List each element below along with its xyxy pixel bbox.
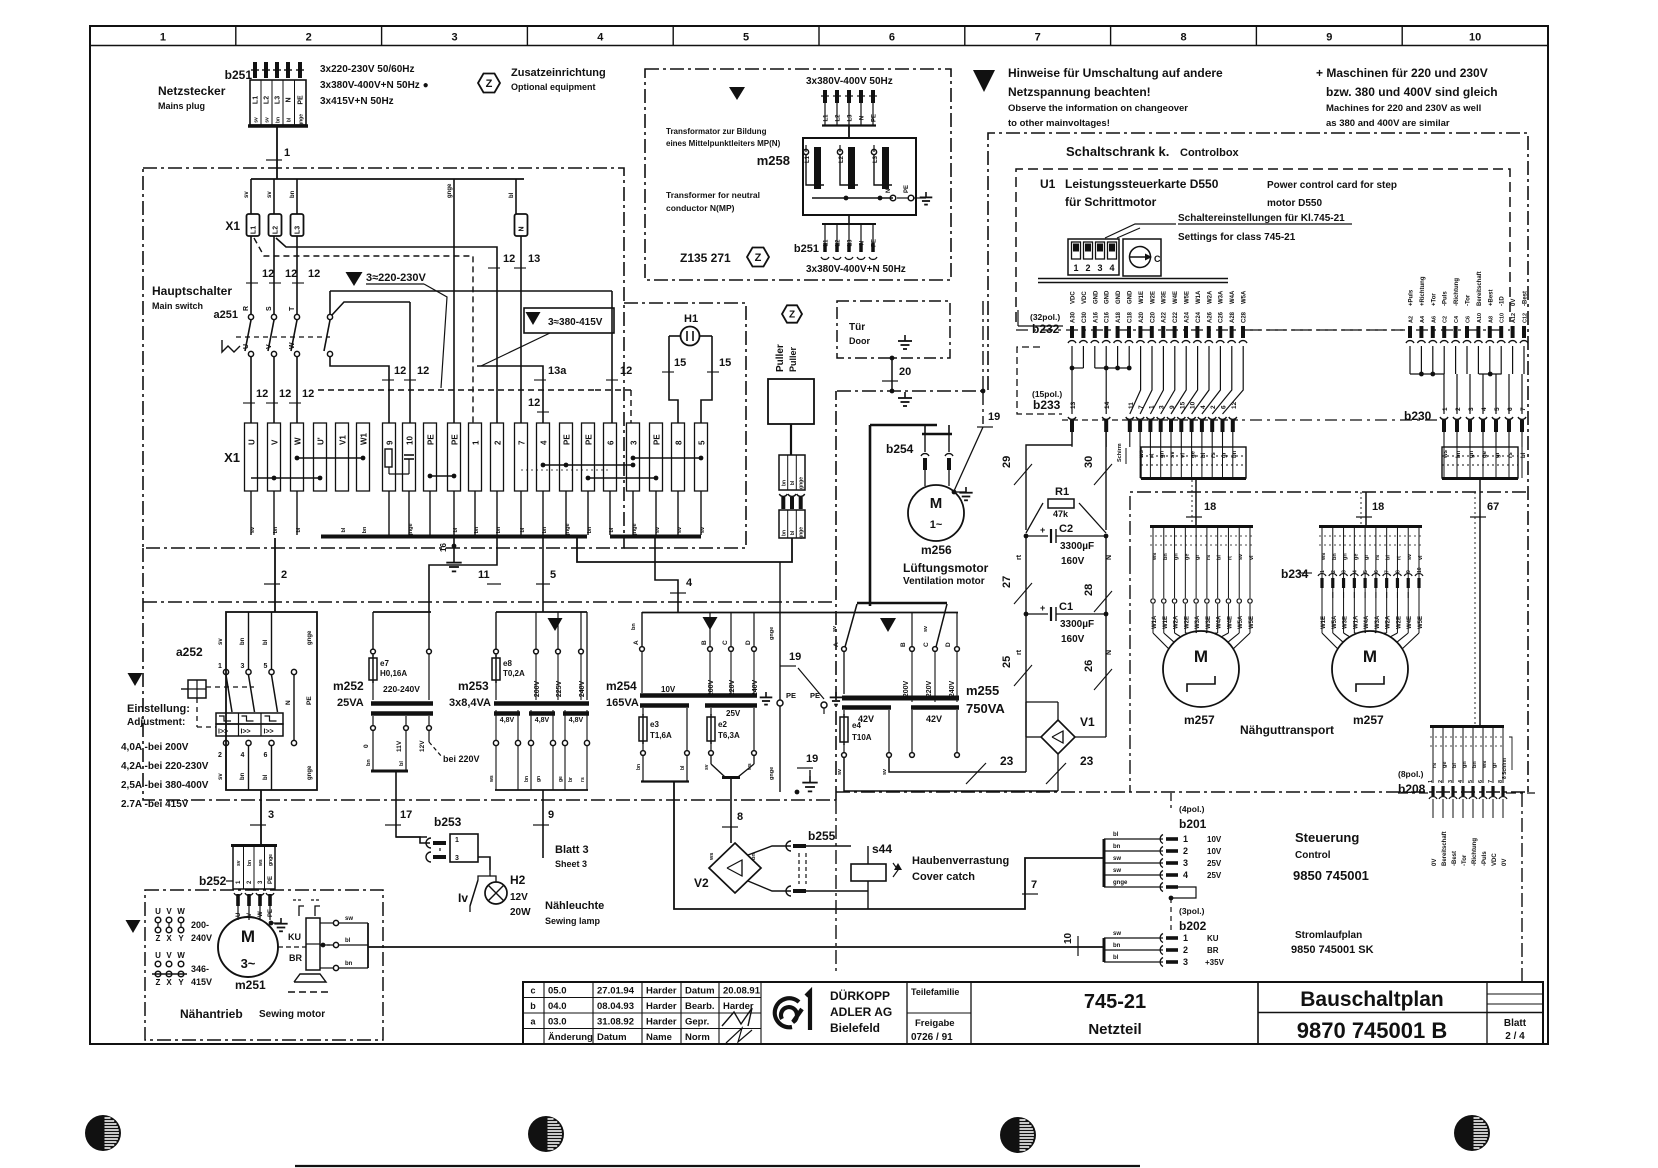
svg-text:V: V xyxy=(271,439,280,445)
svg-text:11: 11 xyxy=(478,569,490,581)
svg-text:8 Schirm: 8 Schirm xyxy=(1502,757,1508,779)
svg-text:Mains plug: Mains plug xyxy=(158,101,205,111)
svg-text:eines Mittelpunktleiters MP(N): eines Mittelpunktleiters MP(N) xyxy=(666,139,781,148)
svg-text:1: 1 xyxy=(1320,570,1326,573)
wire tag 11 xyxy=(478,569,501,584)
svg-text:12: 12 xyxy=(620,365,632,377)
svg-text:Änderung: Änderung xyxy=(548,1032,593,1043)
wire 29 drop xyxy=(1026,432,1072,530)
svg-text:20.08.91: 20.08.91 xyxy=(723,986,761,997)
X1 cell tails xyxy=(251,491,701,535)
svg-text:9: 9 xyxy=(1326,32,1332,44)
svg-text:12: 12 xyxy=(417,365,429,377)
wire tag 18 left xyxy=(1186,501,1216,517)
svg-text:gnge: gnge xyxy=(769,627,775,640)
symbol Z optional equipment xyxy=(478,74,500,93)
svg-text:27: 27 xyxy=(1001,576,1013,588)
svg-text:bl: bl xyxy=(263,774,269,780)
svg-text:A4: A4 xyxy=(1420,315,1426,323)
svg-text:W5E: W5E xyxy=(1185,291,1191,304)
wire 67 down xyxy=(1475,480,1480,725)
wire tag 20 xyxy=(882,366,911,381)
wire pole4 bottom to X1.9 xyxy=(330,357,389,423)
enclosure U1 card xyxy=(1016,169,1510,322)
wire gnge drop xyxy=(453,179,455,423)
svg-text:PE: PE xyxy=(563,434,572,445)
svg-text:15: 15 xyxy=(674,357,686,369)
svg-text:PE: PE xyxy=(306,696,313,705)
switch a251 actuator xyxy=(222,340,240,352)
V2 wire labels xyxy=(709,853,757,861)
svg-text:9850 745001 SK: 9850 745001 SK xyxy=(1291,944,1374,956)
svg-text:L2: L2 xyxy=(264,96,271,104)
m251 voltage grid 200-240V xyxy=(155,907,212,943)
svg-text:10V: 10V xyxy=(1207,847,1222,856)
marker triangle m253 xyxy=(548,618,563,631)
svg-text:Controlbox: Controlbox xyxy=(1180,147,1240,159)
svg-text:sv: sv xyxy=(837,768,843,775)
svg-text:bn: bn xyxy=(781,530,787,536)
svg-text:e8: e8 xyxy=(503,659,512,668)
svg-text:23: 23 xyxy=(1000,754,1014,768)
b252 lower labels xyxy=(236,909,274,917)
svg-text:Bereitschaft: Bereitschaft xyxy=(1477,271,1483,306)
label C1 xyxy=(1059,601,1094,645)
wire s44 down xyxy=(867,881,869,909)
svg-text:19: 19 xyxy=(806,753,818,765)
wire bus 290 to right xyxy=(330,290,612,292)
wire tag 12 near N xyxy=(488,253,515,268)
svg-text:PE: PE xyxy=(427,434,436,445)
svg-text:47k: 47k xyxy=(1053,509,1069,519)
svg-text:3≈220-230V: 3≈220-230V xyxy=(366,272,427,284)
wire to b202 xyxy=(368,946,1104,948)
wire 380-415V feed xyxy=(611,291,613,423)
svg-text:7: 7 xyxy=(1488,780,1494,783)
svg-text:ws: ws xyxy=(1152,553,1158,561)
svg-text:Zusatzeinrichtung: Zusatzeinrichtung xyxy=(511,67,606,79)
svg-text:(8pol.): (8pol.) xyxy=(1398,769,1424,779)
svg-text:28: 28 xyxy=(1083,584,1095,596)
svg-text:Puller: Puller xyxy=(788,346,798,372)
wire tag 7 xyxy=(1022,879,1038,894)
ruler column numbers 1-10 xyxy=(160,32,1481,44)
wires to b230 xyxy=(1444,374,1522,414)
m254 primary pins A B C D xyxy=(631,612,756,693)
svg-text:W4A: W4A xyxy=(1230,290,1236,304)
svg-text:7: 7 xyxy=(1385,570,1391,573)
svg-text:m252: m252 xyxy=(333,679,364,693)
fuse e4 xyxy=(840,710,872,745)
wire m254 10V output xyxy=(674,782,1103,909)
svg-text:conductor N(MP): conductor N(MP) xyxy=(666,203,735,213)
svg-text:PE: PE xyxy=(268,876,274,884)
b233 tails xyxy=(1072,432,1233,447)
label m252 xyxy=(333,679,364,709)
svg-text:165VA: 165VA xyxy=(606,697,639,709)
svg-text:PE: PE xyxy=(786,691,796,700)
svg-text:sv: sv xyxy=(218,638,224,645)
m258 output wire xyxy=(848,215,850,224)
b201 pin5 loop xyxy=(1169,887,1196,930)
svg-text:W2A: W2A xyxy=(1207,290,1213,304)
svg-text:M: M xyxy=(1194,647,1208,666)
svg-text:225V: 225V xyxy=(556,681,563,698)
svg-text:b202: b202 xyxy=(1179,919,1207,933)
svg-text:23: 23 xyxy=(1080,754,1094,768)
svg-text:W: W xyxy=(294,437,303,445)
b254 pins xyxy=(921,454,953,486)
svg-text:X: X xyxy=(166,978,172,987)
signature scribble xyxy=(722,1008,752,1043)
svg-text:14: 14 xyxy=(1104,401,1111,409)
wire dashed option lower xyxy=(318,389,595,391)
svg-text:I>>: I>> xyxy=(241,729,251,736)
svg-text:sv: sv xyxy=(882,768,888,775)
svg-text:Gepr.: Gepr. xyxy=(685,1017,709,1028)
svg-text:bn: bn xyxy=(524,776,530,782)
a252 internal wires lower xyxy=(218,746,313,790)
wire rt mid xyxy=(1016,536,1026,614)
svg-text:3x415V+N 50Hz: 3x415V+N 50Hz xyxy=(320,96,394,107)
svg-text:08.04.93: 08.04.93 xyxy=(597,1001,634,1012)
b232 signal names left xyxy=(1071,290,1248,304)
svg-text:B: B xyxy=(701,640,708,645)
connector b201 pins xyxy=(1160,834,1188,892)
svg-text:4,8V: 4,8V xyxy=(535,717,550,724)
svg-text:Schirm: Schirm xyxy=(1117,443,1123,462)
svg-text:C28: C28 xyxy=(1242,311,1248,323)
svg-text:0: 0 xyxy=(363,744,370,748)
wire tag 9 xyxy=(533,809,554,825)
svg-text:gnge: gnge xyxy=(307,630,313,645)
svg-text:Nähleuchte: Nähleuchte xyxy=(545,900,604,912)
enclosure m258 box xyxy=(645,69,951,280)
motor m251 xyxy=(218,917,278,977)
m256 PE dot and ground xyxy=(952,487,973,500)
svg-text:M: M xyxy=(241,927,255,946)
wire tag 12 cell6 xyxy=(606,365,632,380)
label Naehantrieb xyxy=(180,1007,325,1021)
X1 link 7-PE dotted xyxy=(521,470,658,480)
enclosure H1/puller box xyxy=(624,303,746,548)
svg-text:18: 18 xyxy=(1204,501,1216,513)
wire dashed drop X1.3 xyxy=(595,390,631,423)
svg-text:12: 12 xyxy=(308,268,320,280)
svg-text:1: 1 xyxy=(1073,263,1078,273)
svg-text:16: 16 xyxy=(439,543,448,552)
svg-text:bn: bn xyxy=(290,190,296,198)
svg-text:e3: e3 xyxy=(650,720,659,729)
svg-text:10V: 10V xyxy=(1207,835,1222,844)
svg-text:VDC: VDC xyxy=(1492,853,1498,866)
svg-text:ADLER AG: ADLER AG xyxy=(830,1005,892,1019)
svg-text:U1: U1 xyxy=(1040,177,1056,191)
m251 brush symbol top xyxy=(293,900,321,916)
wire gnge PE xyxy=(769,562,780,792)
svg-text:12: 12 xyxy=(285,268,297,280)
svg-text:C18: C18 xyxy=(1128,311,1134,323)
svg-text:bl: bl xyxy=(509,192,515,198)
wire top bus xyxy=(251,179,524,214)
m254 label 25V xyxy=(726,709,741,718)
label 3x380V-400V+N 50Hz xyxy=(806,264,906,275)
terminal strip X1 cells xyxy=(245,423,708,491)
wire tag 17 xyxy=(385,809,412,825)
wire rt lower xyxy=(1016,614,1026,772)
svg-text:27.01.94: 27.01.94 xyxy=(597,986,635,997)
svg-text:bn: bn xyxy=(631,623,637,630)
m251 output bus xyxy=(330,923,368,968)
svg-text:+Tor: +Tor xyxy=(1431,293,1437,306)
svg-text:bn: bn xyxy=(781,480,787,486)
wire tag 13 xyxy=(514,253,540,268)
svg-text:W: W xyxy=(177,951,185,960)
m257 right colour labels xyxy=(1321,553,1424,561)
svg-text:3: 3 xyxy=(1183,957,1188,967)
svg-text:V: V xyxy=(166,951,172,960)
wire tag 27 xyxy=(1001,576,1032,604)
m254 label 10V xyxy=(661,685,676,694)
svg-text:gn: gn xyxy=(536,776,542,782)
svg-text:2,5A -bei 380-400V: 2,5A -bei 380-400V xyxy=(121,780,209,791)
svg-text:Teilefamilie: Teilefamilie xyxy=(911,987,959,997)
svg-text:Nähguttransport: Nähguttransport xyxy=(1240,723,1334,737)
wire tags 23 23 xyxy=(966,754,1094,784)
m251 brush box xyxy=(306,918,320,970)
svg-text:4,0A -bei 200V: 4,0A -bei 200V xyxy=(121,742,189,753)
wire 4 to m254 xyxy=(655,538,678,612)
svg-text:sv: sv xyxy=(236,860,242,866)
svg-text:Adjustment:: Adjustment: xyxy=(127,717,185,728)
svg-text:R1: R1 xyxy=(1055,486,1069,498)
connector b251 pins L1 L2 L3 N PE xyxy=(251,62,304,78)
svg-text:sw: sw xyxy=(1113,868,1121,874)
svg-text:2.7A -bei 415V: 2.7A -bei 415V xyxy=(121,799,189,810)
wire 19 lower ground xyxy=(795,753,819,794)
svg-text:-Richtung: -Richtung xyxy=(1454,278,1460,306)
wire tag 10 xyxy=(1063,932,1078,956)
svg-text:7: 7 xyxy=(518,440,527,445)
svg-text:U: U xyxy=(243,344,250,349)
svg-text:3: 3 xyxy=(1468,407,1475,411)
svg-text:sw: sw xyxy=(1113,856,1121,862)
puller box xyxy=(768,379,814,424)
svg-text:9870 745001 B: 9870 745001 B xyxy=(1297,1018,1447,1043)
connector b252 pins xyxy=(234,893,274,920)
svg-text:10: 10 xyxy=(1469,32,1481,44)
label Blatt 3 xyxy=(555,844,589,869)
capacitor C2 xyxy=(1024,525,1109,543)
svg-text:346-: 346- xyxy=(191,964,209,974)
svg-text:V1: V1 xyxy=(1080,715,1095,729)
svg-text:3: 3 xyxy=(1183,858,1188,868)
svg-text:sv: sv xyxy=(218,773,224,780)
enclosure right lower box xyxy=(836,391,1528,800)
title block blatt xyxy=(1487,982,1543,1044)
b230 pin numbers xyxy=(1442,407,1527,411)
svg-text:67: 67 xyxy=(1487,501,1499,513)
svg-text:3x380V-400V+N 50Hz: 3x380V-400V+N 50Hz xyxy=(806,264,906,275)
svg-text:bn: bn xyxy=(247,860,253,866)
svg-text:PE: PE xyxy=(268,909,274,917)
svg-text:Harder: Harder xyxy=(723,1001,754,1012)
b230 colour labels xyxy=(1443,449,1527,459)
svg-text:A22: A22 xyxy=(1162,311,1168,323)
svg-text:220-240V: 220-240V xyxy=(383,684,420,694)
svg-text:L1: L1 xyxy=(251,226,258,234)
svg-text:6: 6 xyxy=(1507,407,1514,411)
svg-text:6: 6 xyxy=(1478,780,1484,783)
dashdot x1522 steuerung xyxy=(1521,793,1523,981)
svg-text:sw: sw xyxy=(345,916,353,922)
svg-text:Blatt 3: Blatt 3 xyxy=(555,844,589,856)
svg-text:3: 3 xyxy=(268,809,274,821)
wire L1 to switch xyxy=(250,236,252,314)
m251 ground xyxy=(269,918,288,931)
title block 745-21 xyxy=(1084,991,1146,1038)
bus colour labels xyxy=(244,183,515,198)
svg-text:1: 1 xyxy=(218,663,222,670)
svg-text:Transformator zur Bildung: Transformator zur Bildung xyxy=(666,127,767,136)
svg-text:5: 5 xyxy=(698,440,707,445)
svg-text:s44: s44 xyxy=(872,842,892,856)
svg-text:Netzspannung beachten!: Netzspannung beachten! xyxy=(1008,85,1151,99)
label X1 strip xyxy=(224,450,240,465)
svg-text:Optional equipment: Optional equipment xyxy=(511,82,596,92)
label Schaltschrank xyxy=(1066,144,1240,159)
svg-text:DÜRKOPP: DÜRKOPP xyxy=(830,988,890,1003)
label Naehleuchte xyxy=(545,900,604,926)
svg-text:C12: C12 xyxy=(1523,313,1529,323)
svg-text:bn: bn xyxy=(366,759,372,766)
wires switch to X1 cells xyxy=(251,357,297,423)
svg-text:ws: ws xyxy=(1482,761,1488,769)
svg-text:C10: C10 xyxy=(1500,313,1506,323)
svg-text:Iv: Iv xyxy=(458,891,468,905)
connector b233 pins xyxy=(1062,417,1245,432)
m254 m255 shared rail xyxy=(642,612,958,614)
rectifier V1 xyxy=(1041,715,1095,754)
wire 20 xyxy=(890,356,895,394)
svg-text:W: W xyxy=(258,911,264,917)
svg-text:9: 9 xyxy=(1169,405,1176,409)
wire L1 dashed option xyxy=(254,238,473,423)
b201 voltages xyxy=(1207,835,1222,880)
b233 colour labels xyxy=(1117,443,1238,464)
svg-text:2: 2 xyxy=(281,569,287,581)
svg-text:ws: ws xyxy=(1321,553,1327,561)
m252 bei220V switch xyxy=(429,731,480,764)
svg-text:Freigabe: Freigabe xyxy=(915,1018,955,1029)
m258 N PE terminals xyxy=(886,185,914,201)
svg-text:750VA: 750VA xyxy=(966,701,1005,716)
svg-text:W3A: W3A xyxy=(1219,290,1225,304)
punch hole 3 xyxy=(1000,1117,1036,1153)
m258 output connector b251 xyxy=(821,224,878,259)
svg-text:bn: bn xyxy=(1163,553,1169,560)
svg-text:bn: bn xyxy=(1472,761,1478,768)
wire L2 branch to X1.2 xyxy=(276,238,497,423)
svg-text:N: N xyxy=(1106,555,1113,560)
symbol Z m258 xyxy=(747,248,769,267)
svg-text:bl: bl xyxy=(263,639,269,645)
svg-text:12V: 12V xyxy=(510,892,528,903)
DIP switch S1 1-4 xyxy=(1068,239,1119,275)
title block bauschaltplan xyxy=(1258,982,1543,1044)
svg-text:+Richtung: +Richtung xyxy=(1420,276,1426,306)
b232 row dashline xyxy=(1250,329,1405,331)
svg-text:12: 12 xyxy=(394,365,406,377)
svg-text:C1: C1 xyxy=(1059,601,1073,613)
svg-text:9: 9 xyxy=(1406,570,1412,573)
svg-text:m255: m255 xyxy=(966,683,999,698)
m258 ground xyxy=(914,192,932,205)
svg-text:W1: W1 xyxy=(360,432,369,445)
svg-text:5: 5 xyxy=(1363,570,1369,573)
m255 primary pins A B C D xyxy=(832,604,959,702)
svg-text:Lüftungsmotor: Lüftungsmotor xyxy=(903,561,989,575)
svg-text:6: 6 xyxy=(607,440,616,445)
X1 RC across 9-10 xyxy=(385,449,414,474)
svg-text:C6: C6 xyxy=(1466,316,1472,323)
svg-text:25V: 25V xyxy=(1207,871,1222,880)
svg-text:ge: ge xyxy=(1442,762,1448,768)
svg-text:Harder: Harder xyxy=(646,986,677,997)
svg-text:PE: PE xyxy=(904,185,910,193)
wire 9 down xyxy=(542,790,544,858)
svg-text:160V: 160V xyxy=(1061,634,1085,645)
svg-text:+35V: +35V xyxy=(1205,958,1225,967)
svg-text:Puller: Puller xyxy=(775,344,786,372)
svg-text:GND: GND xyxy=(1105,290,1111,304)
svg-text:A18: A18 xyxy=(1116,311,1122,323)
label transformator DE xyxy=(666,127,781,148)
svg-text:gn: gn xyxy=(1462,761,1468,768)
svg-text:1: 1 xyxy=(1148,405,1155,409)
logo Duerkopp Adler xyxy=(775,992,810,1030)
svg-text:gn: gn xyxy=(1343,553,1349,560)
svg-text:1: 1 xyxy=(472,440,481,445)
label b202 xyxy=(1179,906,1207,933)
connector b232 left pins xyxy=(1068,326,1247,343)
svg-text:rs: rs xyxy=(1432,763,1438,768)
svg-text:rs: rs xyxy=(1206,555,1212,560)
connector b252 body xyxy=(231,845,277,889)
m251 brush contacts xyxy=(320,916,368,971)
svg-text:5: 5 xyxy=(264,663,268,670)
wire tag 26 xyxy=(1083,660,1112,690)
m253 secondary colours xyxy=(489,775,586,783)
svg-text:a252: a252 xyxy=(176,645,203,659)
svg-text:3: 3 xyxy=(1342,570,1348,573)
m252 fuse tail xyxy=(372,680,374,700)
svg-text:GND: GND xyxy=(1093,290,1099,304)
svg-text:bl: bl xyxy=(1386,555,1392,560)
svg-text:12: 12 xyxy=(1231,401,1238,409)
svg-text:m257: m257 xyxy=(1353,713,1384,727)
a252 overcurrent trips I>> xyxy=(216,713,283,736)
svg-text:X1: X1 xyxy=(225,219,240,233)
svg-text:b251: b251 xyxy=(794,243,819,255)
svg-text:(32pol.): (32pol.) xyxy=(1030,312,1060,322)
title block table xyxy=(523,982,1543,1044)
svg-text:m258: m258 xyxy=(757,153,790,168)
wires to b233 xyxy=(1072,346,1243,414)
svg-text:745-21: 745-21 xyxy=(1084,991,1146,1013)
svg-text:Machines for 220 and 230V as w: Machines for 220 and 230V as well xyxy=(1326,103,1481,114)
wire tag 2 xyxy=(264,569,287,584)
